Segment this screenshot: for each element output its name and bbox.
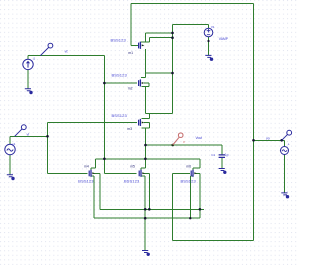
svg-text:m4: m4 bbox=[84, 164, 89, 168]
svg-text:BSS123: BSS123 bbox=[124, 178, 140, 183]
wire I1 top lead bbox=[27, 56, 29, 60]
wire vi node bbox=[10, 135, 48, 137]
wire feedback drop vertical bbox=[171, 173, 173, 240]
wire node J1 bbox=[146, 72, 173, 74]
svg-text:BSS123: BSS123 bbox=[78, 178, 94, 183]
node M6 bulk on rail1 bbox=[199, 208, 202, 211]
wire M5 source drop and ground stem bbox=[141, 176, 145, 250]
svg-text:V1: V1 bbox=[211, 25, 215, 29]
svg-text:m6: m6 bbox=[186, 164, 191, 168]
ground mirror bbox=[142, 251, 149, 256]
node T1 bulk on bus bbox=[171, 36, 174, 39]
node J1 on bus bbox=[171, 72, 174, 75]
voltage source V2 bbox=[5, 144, 15, 154]
wire T1 gate lead bbox=[131, 44, 138, 46]
wire M6 gate bbox=[172, 172, 190, 174]
svg-text:BSS123: BSS123 bbox=[111, 37, 127, 42]
wire T1 bulk step bbox=[150, 38, 173, 42]
wire M5 drain tap bbox=[141, 159, 146, 170]
svg-text:+: + bbox=[288, 142, 290, 146]
svg-text:Vout: Vout bbox=[196, 136, 203, 140]
wire drain bus vertical bbox=[172, 25, 174, 114]
ground V2 bbox=[7, 175, 14, 180]
node T1 drain on bus bbox=[171, 32, 174, 35]
wire Vout horizontal bbox=[146, 144, 222, 146]
wire V3 top lead bbox=[284, 140, 286, 146]
ground I1 bbox=[25, 89, 32, 94]
wire V1 top bbox=[173, 24, 209, 26]
transistor M6 bbox=[191, 170, 193, 177]
wire vo node bbox=[254, 139, 285, 141]
wire T1 drain step bbox=[140, 33, 172, 42]
svg-text:vo: vo bbox=[266, 136, 270, 140]
wire M6 drain tap bbox=[193, 159, 200, 170]
node vo tap bbox=[252, 139, 255, 142]
current source I1 bbox=[23, 59, 33, 69]
node M6 source on rail2 bbox=[189, 217, 191, 219]
wire T1 gate vertical bbox=[130, 3, 132, 45]
svg-text:i1: i1 bbox=[33, 57, 36, 61]
net flag vi bbox=[15, 125, 27, 137]
node bias/drain-rail junction bbox=[103, 158, 106, 161]
svg-text:BSS123: BSS123 bbox=[181, 178, 197, 183]
wire bulk rail bbox=[100, 208, 204, 210]
node M5 drain junction bbox=[144, 158, 147, 161]
net flag vo bbox=[282, 130, 292, 140]
wire M5 bulk drop bbox=[144, 173, 150, 209]
node T2 gate tap bbox=[103, 82, 106, 85]
svg-text:vc: vc bbox=[65, 50, 69, 54]
wire M4 gate bbox=[48, 172, 88, 174]
ground C1 bbox=[219, 169, 226, 174]
svg-text:m1: m1 bbox=[128, 51, 133, 55]
wire V2 top lead bbox=[9, 136, 11, 144]
voltage source V1 bbox=[204, 28, 213, 37]
wire T3 bulk tie bbox=[144, 123, 150, 128]
wire M4 bulk drop bbox=[94, 173, 101, 209]
wire M6 bulk drop bbox=[196, 173, 200, 218]
wire bottom feedback rail bbox=[172, 240, 253, 242]
svg-text:BSS123: BSS123 bbox=[112, 113, 128, 118]
net flag vc bbox=[40, 43, 53, 56]
wire T2 bulk tie bbox=[144, 83, 149, 86]
svg-text:VAMP: VAMP bbox=[219, 37, 229, 41]
svg-text:vi: vi bbox=[27, 132, 30, 136]
wire V2 bottom lead to ground bbox=[9, 155, 11, 175]
wire M6 source drop bbox=[190, 176, 193, 218]
wire mirror drain rail bbox=[96, 158, 200, 160]
wire V1 top lead bbox=[208, 25, 210, 29]
ground V1 bbox=[205, 55, 212, 60]
node rail2 stem bbox=[144, 217, 147, 220]
wire C1 bottom lead bbox=[221, 158, 223, 168]
wire T3 gate bbox=[48, 121, 138, 123]
transistor M4 bbox=[89, 170, 91, 177]
node Vout tap bbox=[144, 144, 147, 147]
svg-text:1p: 1p bbox=[225, 153, 229, 157]
wire I1 top node to bias column bbox=[28, 55, 104, 57]
net flag Vout probe (red) bbox=[173, 133, 183, 145]
wire top feedback rail bbox=[131, 2, 253, 4]
wire right feedback vertical bbox=[253, 3, 255, 240]
node red flag base bbox=[171, 144, 174, 147]
transistor M3 bbox=[139, 119, 141, 126]
node vi junction bbox=[46, 135, 49, 138]
wire vi vertical branch bbox=[47, 122, 49, 173]
node V1 minus bbox=[207, 40, 209, 42]
wire T1 source down bbox=[145, 49, 147, 73]
svg-text:m3: m3 bbox=[127, 127, 132, 131]
svg-text:m5: m5 bbox=[130, 164, 135, 168]
wire C1 top lead bbox=[221, 145, 223, 154]
wire M4 source drop bbox=[91, 176, 94, 218]
wire V3 bottom lead to ground bbox=[284, 155, 286, 193]
transistor M1 bbox=[139, 42, 141, 49]
wire T3 drain tap bbox=[142, 114, 150, 119]
transistor M5 bbox=[139, 170, 141, 177]
svg-text:C1: C1 bbox=[211, 153, 215, 157]
wire V1 bottom lead to ground bbox=[208, 37, 210, 55]
node rail1 stem bbox=[144, 208, 147, 211]
wire I1 bottom lead to ground bbox=[27, 70, 29, 89]
node vo flag base bbox=[280, 139, 283, 142]
wire source rail bbox=[94, 217, 200, 219]
voltage source V3 bbox=[281, 147, 289, 155]
wire node J2 bbox=[146, 113, 173, 115]
transistor M2 bbox=[139, 79, 141, 86]
wire T2 source down bbox=[142, 86, 146, 113]
svg-text:v1: v1 bbox=[12, 142, 16, 146]
wire M5 gate bbox=[104, 172, 136, 174]
node M5 bulk on rail1 bbox=[148, 208, 151, 211]
wire T3 source down bbox=[142, 128, 146, 159]
ground V3 bbox=[281, 193, 288, 198]
svg-text:BSS123: BSS123 bbox=[112, 72, 128, 77]
wire M4 drain tap bbox=[91, 159, 96, 170]
wire bias column vertical bbox=[103, 56, 105, 174]
capacitor C1 bbox=[219, 155, 225, 158]
wire T2 gate bbox=[104, 82, 137, 84]
wire T2 drain tap bbox=[141, 73, 146, 78]
svg-text:m2: m2 bbox=[128, 86, 133, 90]
